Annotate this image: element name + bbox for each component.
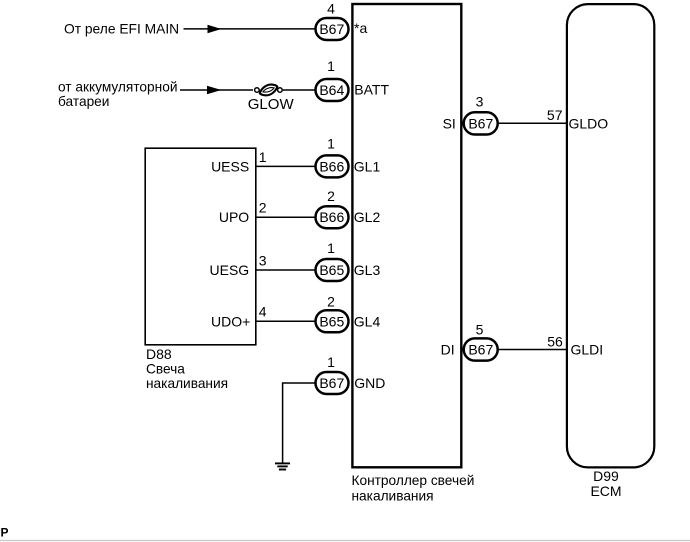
svg-text:GLDI: GLDI [571,342,604,358]
wire: UESS pin 1 of D88 to connector GL1 [257,165,317,167]
connector B65 pin 1 (GL3) [316,259,349,281]
svg-text:GLOW: GLOW [248,96,295,113]
svg-text:Контроллер свечей: Контроллер свечей [352,473,475,488]
connector B67 pin 1 (GND) [316,372,349,394]
svg-text:B67: B67 [468,342,493,358]
svg-text:1: 1 [327,58,335,74]
svg-text:4: 4 [259,304,267,320]
svg-text:B67: B67 [319,375,344,391]
svg-text:P: P [1,526,9,540]
svg-text:UPO: UPO [219,209,249,225]
svg-text:57: 57 [547,107,563,123]
ECM box D99 [567,4,654,467]
svg-text:ECM: ECM [590,483,621,499]
svg-text:GL1: GL1 [354,158,381,174]
svg-text:накаливания: накаливания [146,376,228,391]
wire: from fusible link GLOW to connector B64 [283,89,315,91]
svg-text:B64: B64 [319,82,344,98]
wire: UDO+ pin 4 of D88 to connector GL4 [257,320,317,322]
svg-text:2: 2 [327,188,335,204]
svg-text:4: 4 [327,0,335,16]
svg-text:DI: DI [441,342,455,358]
connector B65 pin 2 (GL4) [316,310,349,332]
svg-text:UESS: UESS [211,158,249,174]
svg-text:B67: B67 [468,115,493,131]
wire: from battery to fusible link GLOW [180,89,253,91]
svg-text:BATT: BATT [354,82,389,98]
svg-text:UDO+: UDO+ [211,313,250,329]
glow plug box D88 [145,148,256,345]
connector B64 pin 1 (BATT) [316,79,349,101]
svg-text:D99: D99 [593,468,619,484]
svg-text:1: 1 [327,135,335,151]
wire: UESG pin 3 of D88 to connector GL3 [257,269,317,271]
connector B66 pin 2 (GL2) [316,206,349,228]
connector B67 pin 4 (*a, from EFI MAIN relay) [316,18,349,40]
wire: from EFI MAIN relay to connector A [184,28,316,30]
wire: SI output to ECM GLDO terminal 57 [498,122,567,124]
svg-text:накаливания: накаливания [352,488,434,503]
svg-text:Свеча: Свеча [146,361,185,376]
svg-text:1: 1 [259,149,267,165]
ground symbol [275,462,290,464]
svg-text:3: 3 [259,252,267,268]
svg-text:GL2: GL2 [354,209,381,225]
svg-text:B65: B65 [319,262,344,278]
svg-text:SI: SI [443,115,456,131]
fusible link GLOW: right terminal circle [278,88,283,93]
svg-text:от аккумуляторной: от аккумуляторной [58,79,177,94]
svg-text:GLDO: GLDO [569,115,609,131]
svg-text:D88: D88 [146,346,172,362]
fusible link GLOW: left terminal circle [255,88,260,93]
svg-text:56: 56 [547,333,563,349]
wire: UPO pin 2 of D88 to connector GL2 [257,216,317,218]
connector B67 pin 5 (DI) [464,338,498,360]
arrow on EFI MAIN wire [208,25,222,33]
svg-text:GL3: GL3 [354,262,381,278]
svg-text:От реле EFI MAIN: От реле EFI MAIN [64,21,179,36]
fusible link GLOW: twisted link body [260,85,278,96]
wire: DI input to ECM GLDI terminal 56 [498,349,567,351]
svg-text:UESG: UESG [210,262,250,278]
connector B66 pin 1 (GL1) [316,155,349,177]
svg-text:B66: B66 [319,209,344,225]
svg-text:3: 3 [476,94,484,110]
svg-text:B67: B67 [319,21,344,37]
svg-text:2: 2 [327,294,335,310]
glow plug controller box (Контроллер свечей накаливания) [352,4,461,467]
svg-text:2: 2 [259,200,267,216]
svg-text:GL4: GL4 [354,313,381,329]
arrow on battery wire [207,86,221,94]
svg-text:GND: GND [354,375,385,391]
connector B67 pin 3 (SI) [464,112,498,134]
svg-text:B66: B66 [319,158,344,174]
svg-text:5: 5 [476,322,484,338]
wire: GND connector to ground [283,383,315,463]
svg-text:1: 1 [327,240,335,256]
bottom separator line [0,540,690,542]
svg-text:1: 1 [327,354,335,370]
svg-text:*a: *a [354,20,367,36]
svg-text:B65: B65 [319,313,344,329]
svg-text:батареи: батареи [58,94,109,109]
